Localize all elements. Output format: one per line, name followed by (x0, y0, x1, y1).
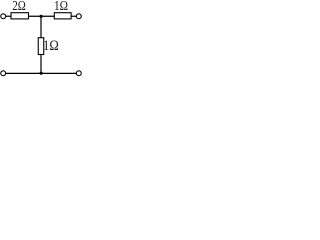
resistor R2 body (54, 13, 71, 19)
terminal (top-right) (76, 14, 81, 19)
svg-text:2Ω: 2Ω (12, 0, 26, 13)
bottom rail wire (6, 72, 77, 74)
resistor R3 body (vertical) (38, 38, 44, 55)
terminal (bottom-left) (1, 71, 6, 76)
wire junction down to R3 (40, 16, 42, 37)
resistor R1 body (11, 13, 29, 19)
background (0, 0, 88, 82)
node junction bottom (40, 72, 43, 75)
wire R3 down to bottom rail (40, 55, 42, 74)
wire R1 to R2 (29, 15, 55, 17)
wire top-left terminal to R1 (6, 15, 11, 17)
terminal (bottom-right) (76, 71, 81, 76)
wire R2 to top-right terminal (71, 15, 76, 17)
terminal (top-left) (1, 14, 6, 19)
svg-text:1Ω: 1Ω (43, 38, 59, 54)
svg-text:1Ω: 1Ω (54, 0, 68, 13)
node junction top (40, 15, 43, 18)
